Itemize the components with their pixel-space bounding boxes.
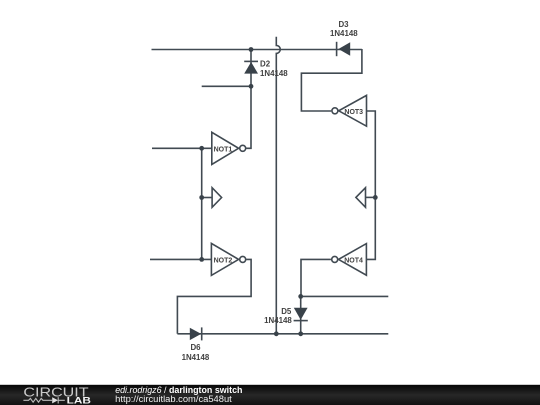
diode D2 (pointing up) (244, 61, 258, 73)
svg-text:http://circuitlab.com/ca548ut: http://circuitlab.com/ca548ut (115, 394, 232, 404)
inverter NOT3 (pointing left) (332, 95, 367, 126)
junction at left middle buffer (199, 195, 204, 200)
wire: NOT4 input to D5 node (301, 259, 331, 296)
svg-text:1N4148: 1N4148 (264, 316, 292, 325)
wire: D2 / NOT1-output vertical branch (x=251) (246, 50, 251, 149)
wire: left middle stub to small buffer (202, 197, 212, 199)
svg-text:NOT2: NOT2 (214, 258, 233, 265)
small buffer marker right (pointing left) (356, 188, 366, 208)
wire: D5 vertical branch (300, 296, 302, 333)
wire: NOT1 input stub (152, 147, 212, 149)
junction at D2 anode on top wire (249, 47, 254, 52)
wire: long vertical net with hop over top wire (x=276.3) (276, 37, 280, 334)
junction at right middle buffer (373, 195, 378, 200)
svg-text:1N4148: 1N4148 (182, 353, 210, 362)
svg-text:1N4148: 1N4148 (260, 69, 288, 78)
logo resistor zigzag and diode (23, 397, 64, 403)
wire: left input bus vertical (x=201.7) (201, 148, 203, 259)
junction at D2 cathode / NOT1 output node (249, 84, 254, 89)
svg-text:D2: D2 (260, 60, 271, 69)
footer bar (0, 385, 540, 405)
svg-text:NOT3: NOT3 (344, 109, 363, 116)
diode D6 (pointing right) (190, 327, 202, 340)
logo diode triangle (52, 397, 58, 403)
wire: right horizontal net (y=296.7) (301, 295, 389, 297)
junction D5 bottom on bottom wire (298, 331, 303, 336)
wire: NOT2 input stub (150, 258, 211, 260)
wire: bottom horizontal net (y=333.6) (177, 333, 388, 335)
diode D5 (pointing down) (294, 308, 308, 321)
diode D3 (pointing left) (337, 42, 351, 56)
inverter NOT1 (212, 132, 246, 164)
junction at D5 top node (298, 294, 303, 299)
wire: NOT2 output path down-left-down (177, 259, 251, 333)
junction long vertical meets bottom wire (274, 331, 279, 336)
svg-text:1N4148: 1N4148 (330, 29, 358, 38)
svg-text:NOT1: NOT1 (214, 146, 233, 153)
wire: NOT3 to NOT4 right-side vertical (x=375.3) (366, 111, 375, 259)
wire: right middle stub to small buffer (366, 196, 376, 198)
inverter NOT2 (211, 243, 245, 275)
wire: second horizontal stub (y=86) (202, 85, 251, 87)
junction at NOT2 input (199, 257, 204, 262)
svg-text:NOT4: NOT4 (344, 258, 363, 265)
svg-text:D6: D6 (190, 343, 201, 352)
wire: D3 to NOT3 input path (301, 49, 362, 111)
inverter NOT4 (pointing left) (332, 244, 367, 276)
svg-text:LAB: LAB (67, 395, 92, 405)
svg-text:D5: D5 (281, 307, 292, 316)
wire: top horizontal net (y=49) (152, 49, 362, 51)
small buffer marker left (pointing right) (212, 188, 222, 208)
junction at NOT1 input (199, 146, 204, 151)
